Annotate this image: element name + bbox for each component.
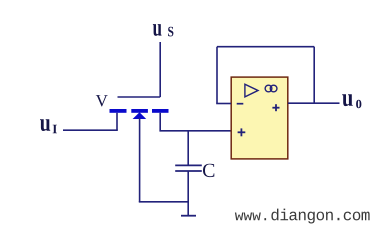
transistor V bulk arrow [133, 112, 147, 119]
feedback wire left vertical [216, 47, 218, 104]
label uS [153, 24, 174, 36]
op-amp plus input sign [238, 128, 246, 136]
label C [203, 164, 214, 177]
feedback wire top [217, 46, 314, 48]
transistor V source segment [110, 109, 127, 113]
op-amp infinity symbol [265, 85, 277, 92]
wire node down to capacitor [187, 131, 189, 165]
capacitor C top plate [175, 164, 202, 166]
op-amp output plus sign [272, 104, 279, 111]
wire drain vertical [159, 113, 161, 130]
wire source vertical [116, 113, 118, 130]
wire source horizontal to uI [63, 129, 118, 131]
ground [181, 215, 196, 217]
label uI [40, 119, 57, 133]
op-amp U1 box [231, 77, 288, 159]
label u0 [342, 94, 361, 108]
watermark www.diangon.com [235, 213, 266, 221]
capacitor C bottom plate [175, 170, 202, 172]
wire feedback to minus input [216, 103, 231, 105]
wire bulk horizontal to ground node [139, 201, 188, 203]
wire output [288, 102, 340, 104]
transistor V drain segment [152, 109, 169, 113]
label V [96, 95, 108, 106]
wire bulk vertical down [139, 118, 141, 202]
wire capacitor to ground [187, 172, 189, 216]
wire drain node to op-amp plus input [159, 130, 231, 132]
wire from uS down to gate [159, 42, 161, 97]
transistor V bulk segment [131, 109, 148, 113]
op-amp minus input sign [237, 103, 244, 105]
op-amp triangle symbol [245, 84, 258, 97]
feedback wire right vertical [313, 47, 315, 104]
wire gate bar [118, 96, 161, 98]
